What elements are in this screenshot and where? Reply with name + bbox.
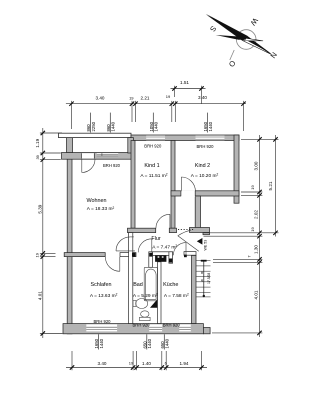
dashed niche line: [178, 228, 194, 230]
svg-text:3.00: 3.00: [254, 161, 259, 170]
entrance arrow: [197, 238, 203, 245]
wall Wohnen/Schlafen (south wall west part): [64, 253, 105, 257]
svg-text:Schlafen: Schlafen: [91, 282, 112, 288]
wall bottom exterior: [63, 324, 203, 334]
door Kind1 arc: [156, 214, 170, 228]
svg-text:4.01: 4.01: [38, 291, 43, 300]
wall bottom stairwell step: [203, 328, 210, 334]
wall Kueche top right piece: [184, 252, 196, 256]
door Kueche arc + leaf (swings into Flur): [173, 243, 186, 256]
svg-text:BRH 920: BRH 920: [163, 323, 181, 328]
svg-text:WE 53: WE 53: [204, 240, 208, 251]
window Schlafen 1650/1440: [86, 324, 117, 331]
dim chain right outer 5.21: [275, 135, 277, 237]
door Bad arc + leaf (swings into Flur): [138, 239, 152, 253]
svg-text:1440: 1440: [165, 338, 170, 348]
door Kind2 arc + leaf: [181, 177, 195, 191]
door Kind2 opening: [181, 190, 195, 196]
svg-text:A = 5.29 m2: A = 5.29 m2: [133, 293, 158, 299]
washbasin: [133, 299, 148, 309]
svg-text:80: 80: [200, 270, 204, 274]
svg-text:A = 18.33 m2: A = 18.33 m2: [87, 206, 115, 212]
balcony parapet top: [59, 133, 132, 137]
window Kueche 650/1440: [179, 324, 191, 331]
svg-text:30: 30: [200, 278, 204, 282]
svg-text:19: 19: [250, 185, 255, 190]
svg-text:A = 13.63 m2: A = 13.63 m2: [90, 293, 118, 299]
wall W1 Wohnen/Kind1: [131, 141, 135, 229]
wall entrance vertical: [195, 196, 200, 230]
window Bad 650/1440: [149, 324, 162, 331]
svg-text:BRH 920: BRH 920: [94, 319, 112, 324]
door Schlafen arc + leaf: [105, 257, 119, 271]
svg-text:1.94: 1.94: [180, 361, 189, 366]
wall facade Wohnen (south of balcony): [62, 153, 134, 160]
svg-text:19: 19: [250, 227, 255, 232]
wall Bad/Kueche (hollow): [158, 262, 162, 324]
svg-text:1.19: 1.19: [35, 138, 40, 147]
svg-text:Wohnen: Wohnen: [87, 198, 107, 204]
wall Bad west lower (hollow): [129, 233, 133, 324]
wall W2 foot: [169, 228, 176, 232]
window label 860/2250: [86, 113, 96, 133]
svg-text:1.40: 1.40: [142, 361, 151, 366]
svg-text:A = 7.47 m2: A = 7.47 m2: [152, 244, 177, 250]
stairs center line: [201, 261, 207, 297]
door Wohnen arc + leaf: [116, 237, 135, 251]
svg-text:1440: 1440: [147, 338, 152, 348]
stairs treads: [196, 261, 211, 297]
svg-text:Kind 1: Kind 1: [144, 163, 159, 169]
svg-text:BRH 920: BRH 920: [197, 144, 215, 149]
svg-text:1.30: 1.30: [254, 245, 259, 254]
dim chain left: [40, 128, 63, 338]
svg-text:39: 39: [35, 154, 40, 159]
svg-text:4.01: 4.01: [254, 290, 259, 299]
wall Kueche right: [192, 255, 197, 323]
svg-text:A = 11.51 m2: A = 11.51 m2: [140, 172, 167, 178]
svg-text:BRH 920: BRH 920: [103, 163, 121, 168]
wall entrance top horizontal: [190, 228, 210, 233]
shaft triangle Bad (black): [150, 299, 157, 308]
WC: [140, 311, 151, 321]
compass rose: [230, 30, 256, 60]
window Wohnen 860/1440: [97, 153, 119, 156]
wall entrance small step: [203, 233, 210, 235]
svg-text:1.51: 1.51: [180, 80, 189, 85]
wall niche stub right: [169, 252, 173, 263]
balcony door opening 860/2250: [81, 153, 94, 158]
window label 860/1440: [106, 113, 116, 133]
svg-text:17.5/28: 17.5/28: [207, 273, 211, 284]
svg-text:1440: 1440: [111, 121, 116, 131]
svg-text:5.39: 5.39: [38, 204, 43, 213]
svg-text:Kind 2: Kind 2: [195, 163, 210, 169]
svg-text:2.02: 2.02: [254, 210, 259, 219]
door jamb Bad right (black): [149, 253, 152, 257]
wall niche stub left: [149, 252, 153, 267]
dim chain right inner: [204, 135, 279, 337]
wall Kind2 bottom: [171, 191, 239, 196]
window Kind2 1650/1440: [196, 136, 225, 141]
svg-text:1440: 1440: [208, 121, 213, 131]
wall left exterior: [67, 153, 72, 334]
svg-text:2250: 2250: [91, 121, 96, 131]
window Kind1 1050/1440: [146, 136, 165, 141]
wall Flur south (hollow): [120, 253, 136, 257]
svg-text:BRH 920: BRH 920: [144, 144, 162, 149]
svg-text:1440: 1440: [99, 338, 104, 348]
svg-text:Küche: Küche: [163, 282, 178, 288]
door entrance leaf and arc: [178, 230, 199, 251]
svg-text:A = 10.20 m2: A = 10.20 m2: [191, 172, 219, 178]
svg-text:19: 19: [129, 95, 134, 100]
wall right exterior: [234, 135, 239, 203]
shaft box (black): [155, 256, 166, 262]
window label 650/1440 Kueche: [160, 334, 170, 349]
dim chain bottom: [66, 351, 207, 370]
svg-text:2.21: 2.21: [141, 95, 150, 100]
svg-text:Flur: Flur: [151, 236, 160, 242]
svg-text:1440: 1440: [154, 121, 159, 131]
svg-text:3.40: 3.40: [96, 96, 105, 101]
door jamb Kueche right (black): [184, 255, 187, 258]
svg-text:19: 19: [166, 94, 171, 99]
window label 1050/1440: [149, 113, 159, 133]
svg-text:19: 19: [129, 361, 134, 366]
dim chain top upper 1.51: [171, 86, 206, 104]
wall Kind1 bottom with W1 foot: [128, 228, 156, 232]
svg-text:19: 19: [35, 252, 40, 257]
svg-text:A = 7.58 m2: A = 7.58 m2: [164, 293, 189, 299]
compass needle W-O: [216, 35, 264, 41]
svg-text:Bad: Bad: [133, 282, 143, 288]
svg-text:BRH 920: BRH 920: [133, 323, 151, 328]
wall balcony side column: [67, 134, 73, 153]
window label 650/1440 Bad: [142, 334, 152, 349]
door jamb Kueche left (black): [169, 259, 172, 263]
window label 1650/1440 top: [203, 113, 213, 133]
dim chain top main: [66, 101, 246, 131]
wall facade Kind1/Kind2: [131, 135, 239, 141]
svg-text:3.40: 3.40: [98, 361, 107, 366]
door balcony arc: [82, 159, 95, 172]
wall niche top: [153, 252, 173, 256]
wall W2 Kind1/Kind2: [171, 141, 175, 229]
compass needle N-S: [206, 14, 272, 55]
bathtub: [144, 267, 157, 301]
wall balcony right side: [128, 138, 134, 153]
door jamb Bad left (black): [132, 253, 136, 257]
svg-text:3.40: 3.40: [198, 95, 207, 100]
svg-text:5.21: 5.21: [268, 181, 273, 190]
window label 1650/1440 bottom: [94, 334, 104, 349]
